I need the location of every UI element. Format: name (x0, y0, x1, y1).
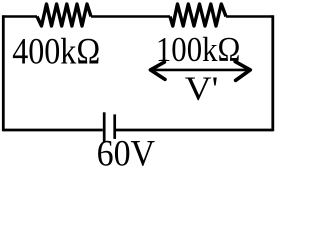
wire: bottom-left segment (3, 129, 103, 132)
svg-text:V': V' (185, 71, 219, 108)
arrow: V' measurement double-headed arrow shaft (150, 69, 249, 72)
arrow: left arrowhead (150, 62, 165, 79)
wire: top-left segment (3, 15, 37, 18)
svg-text:100kΩ: 100kΩ (156, 30, 241, 69)
wire: left vertical (2, 15, 5, 131)
wire: top-middle segment between resistors (91, 15, 170, 18)
svg-text:400kΩ: 400kΩ (12, 31, 100, 72)
battery B1 right plate (113, 114, 116, 138)
wire: bottom-right segment (116, 129, 273, 132)
arrow: right arrowhead (235, 62, 250, 81)
resistor R1 400k zigzag (37, 4, 91, 26)
wire: right vertical (271, 15, 274, 131)
svg-text:60V: 60V (97, 134, 156, 166)
battery B1 left plate (103, 112, 106, 142)
resistor R2 100k zigzag (170, 4, 226, 26)
wire: top-right segment (226, 15, 273, 18)
